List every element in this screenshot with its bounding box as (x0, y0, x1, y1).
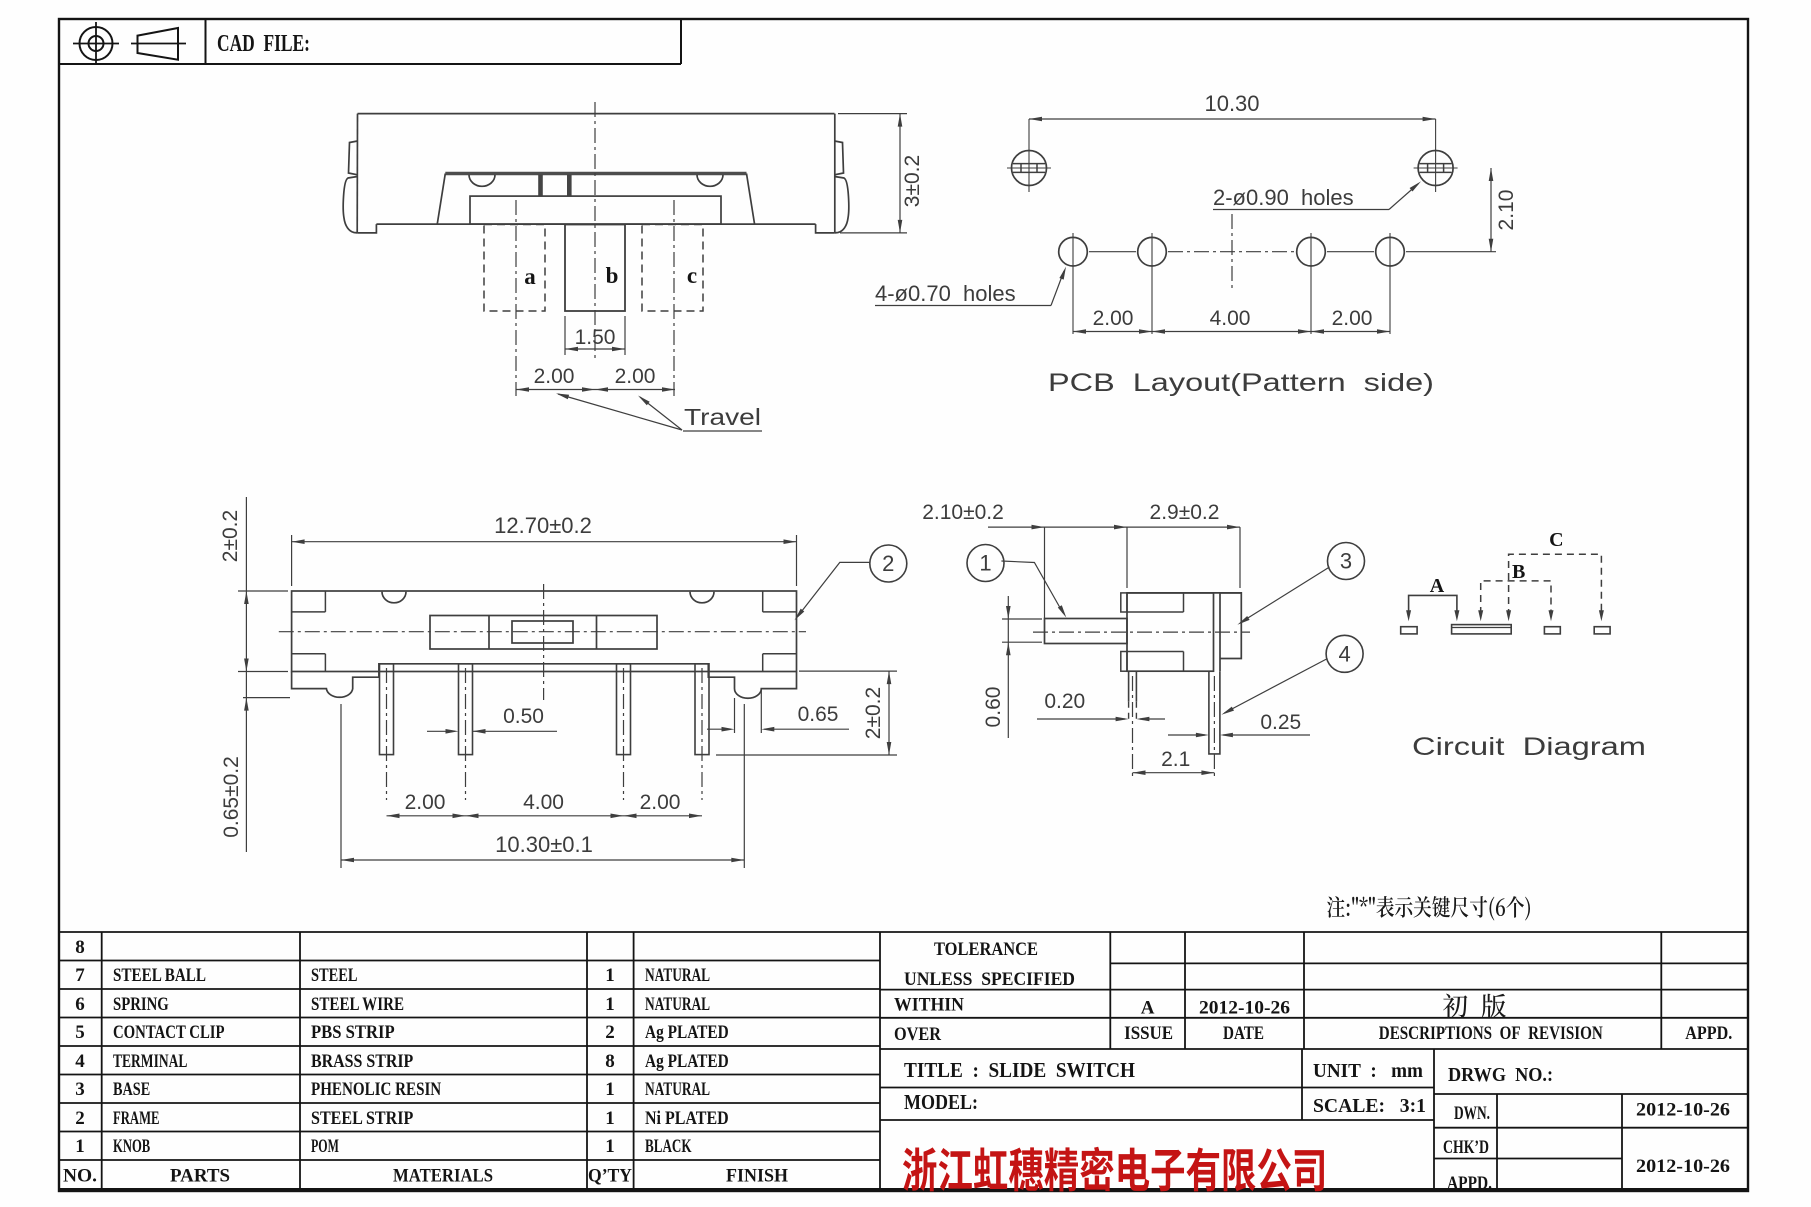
front view stake mark right (567, 175, 572, 197)
top view slot outer (430, 616, 657, 650)
svg-text:OVER: OVER (894, 1025, 942, 1045)
front view frame top plate (445, 172, 746, 176)
top view corner notch BR (763, 653, 797, 655)
drwg block lines (1434, 1093, 1748, 1095)
svg-text:0.65: 0.65 (798, 703, 839, 726)
side view frame right extension (1220, 593, 1241, 659)
circuit pad 4 (1594, 627, 1610, 634)
top view vertical center line (543, 584, 545, 700)
front view a center line (515, 200, 517, 396)
front view left clip tab (349, 141, 358, 175)
svg-text:7: 7 (75, 965, 85, 986)
svg-text:b: b (606, 263, 619, 288)
svg-text:PCB Layout(Pattern side): PCB Layout(Pattern side) (1048, 369, 1434, 397)
top view dome left (382, 592, 406, 603)
dimension 10.30±0.1 extension lines (340, 704, 342, 868)
dimension 2.00 2.00 line (516, 389, 675, 391)
svg-text:2.00: 2.00 (1332, 307, 1373, 330)
title model block lines (880, 1087, 1434, 1089)
revision description chuban (chinese) (1443, 994, 1506, 1018)
svg-text:3: 3 (1340, 549, 1352, 574)
svg-text:CONTACT CLIP: CONTACT CLIP (113, 1023, 225, 1043)
callout 3 balloon (1328, 543, 1365, 580)
svg-text:2012-10-26: 2012-10-26 (1199, 998, 1290, 1019)
svg-text:2.00: 2.00 (1093, 307, 1134, 330)
svg-text:STEEL BALL: STEEL BALL (113, 966, 206, 986)
svg-text:A: A (1141, 998, 1155, 1019)
svg-text:POM: POM (311, 1137, 339, 1157)
front view right foot (816, 224, 835, 233)
front view right edge (834, 114, 836, 233)
side view left tab bottom (1121, 652, 1127, 672)
svg-text:0.20: 0.20 (1044, 690, 1085, 713)
svg-text:10.30±0.1: 10.30±0.1 (495, 832, 593, 857)
svg-text:ISSUE: ISSUE (1124, 1024, 1173, 1044)
note critical dimensions (chinese) (1327, 896, 1530, 921)
svg-text:Ni PLATED: Ni PLATED (645, 1109, 729, 1129)
circuit pad 3 (1544, 627, 1560, 634)
svg-text:0.60: 0.60 (982, 687, 1005, 728)
svg-text:2.00: 2.00 (615, 365, 656, 388)
front view bottom edge (376, 223, 815, 225)
dimension 1.50 (565, 348, 625, 350)
svg-text:NO.: NO. (63, 1166, 97, 1187)
parts table vertical lines (101, 932, 103, 1190)
svg-text:B: B (1512, 561, 1525, 583)
dimension 0.65 right (734, 698, 736, 733)
company name zhejiang hongsui precision electronics (903, 1147, 1324, 1192)
callout 1 balloon (967, 545, 1004, 582)
dimension 2.10±0.2 and 2.9±0.2 (988, 526, 1240, 528)
title bar right end (680, 19, 682, 64)
svg-text:3: 3 (75, 1079, 85, 1100)
svg-text:c: c (687, 263, 697, 288)
top view corner notch TL (292, 611, 326, 613)
top view corner notch BL (292, 653, 326, 655)
svg-text:4: 4 (75, 1051, 85, 1072)
svg-text:2±0.2: 2±0.2 (862, 687, 885, 739)
svg-text:Travel: Travel (684, 404, 761, 430)
svg-text:1: 1 (605, 1108, 615, 1129)
pcb holes horizontal center line (1089, 251, 1136, 253)
title bar bottom line (59, 63, 681, 65)
svg-text:FINISH: FINISH (726, 1166, 788, 1187)
terminal pin 2 (459, 664, 473, 755)
svg-text:BLACK: BLACK (645, 1137, 692, 1157)
svg-text:SPRING: SPRING (113, 995, 169, 1015)
svg-text:2: 2 (605, 1022, 615, 1043)
circuit common pad (1452, 625, 1512, 634)
front view frame right slant (747, 174, 755, 224)
top view knob rect (512, 621, 573, 643)
svg-text:Q’TY: Q’TY (588, 1166, 632, 1187)
front view right lower hook (835, 177, 849, 233)
front view right clip tab (835, 141, 844, 175)
terminal pin 3 (617, 664, 631, 755)
svg-text:Ag PLATED: Ag PLATED (645, 1052, 729, 1072)
callout 4 balloon (1326, 635, 1363, 672)
svg-text:2.10±0.2: 2.10±0.2 (922, 501, 1004, 524)
top view horizontal center line (279, 631, 806, 633)
svg-text:2.00: 2.00 (405, 791, 446, 814)
dimension 3±0.2 (899, 114, 901, 233)
svg-text:12.70±0.2: 12.70±0.2 (494, 513, 592, 538)
side view knob (1045, 619, 1128, 644)
svg-text:WITHIN: WITHIN (894, 996, 965, 1016)
svg-text:3±0.2: 3±0.2 (901, 155, 924, 207)
top view dimension 2.00 4.00 2.00 (387, 815, 703, 817)
title bar divider (205, 19, 207, 64)
front view right dome cutout (697, 175, 723, 187)
svg-text:2.10: 2.10 (1495, 190, 1518, 231)
net B bracket (1481, 581, 1551, 614)
svg-text:2012-10-26: 2012-10-26 (1636, 1156, 1730, 1177)
svg-text:2.9±0.2: 2.9±0.2 (1150, 501, 1220, 524)
svg-text:4.00: 4.00 (523, 791, 564, 814)
callout 2 balloon (870, 545, 907, 582)
svg-text:2.00: 2.00 (534, 365, 575, 388)
svg-text:SCALE: 3:1: SCALE: 3:1 (1313, 1096, 1426, 1117)
svg-text:UNIT : mm: UNIT : mm (1313, 1061, 1423, 1082)
dimension 3±0.2 extension lines (838, 113, 907, 115)
svg-text:1: 1 (605, 1079, 615, 1100)
front view left dome cutout (469, 175, 495, 187)
projection symbol cone (131, 43, 186, 45)
svg-text:PHENOLIC RESIN: PHENOLIC RESIN (311, 1080, 442, 1100)
pcb small hole 2 (1138, 237, 1167, 266)
dimension 0.50 (427, 730, 455, 732)
svg-text:2012-10-26: 2012-10-26 (1636, 1100, 1730, 1121)
pcb small hole 3 (1297, 237, 1326, 266)
svg-text:BRASS STRIP: BRASS STRIP (311, 1052, 413, 1072)
svg-text:APPD.: APPD. (1685, 1024, 1732, 1044)
front view left lower hook (343, 177, 357, 233)
svg-text:a: a (524, 264, 536, 289)
svg-text:2.00: 2.00 (640, 791, 681, 814)
svg-text:TITLE : SLIDE SWITCH: TITLE : SLIDE SWITCH (904, 1058, 1135, 1082)
svg-text:1: 1 (979, 551, 991, 576)
front view left edge (356, 114, 358, 233)
svg-text:8: 8 (605, 1051, 615, 1072)
svg-text:1: 1 (605, 1136, 615, 1157)
front view stake mark left (538, 175, 543, 197)
svg-text:5: 5 (75, 1022, 85, 1043)
svg-text:KNOB: KNOB (113, 1137, 150, 1157)
dimension 2±0.2 right (799, 670, 897, 672)
pcb big hole right (1418, 151, 1453, 186)
svg-text:2-ø0.90 holes: 2-ø0.90 holes (1213, 185, 1354, 210)
dimension 10.30±0.1 (341, 859, 744, 861)
svg-text:2±0.2: 2±0.2 (219, 510, 242, 562)
svg-text:CAD FILE:: CAD FILE: (217, 31, 310, 57)
front view frame left slant (437, 174, 445, 224)
svg-text:FRAME: FRAME (113, 1109, 160, 1129)
dimension 1.50 extension lines (564, 316, 566, 355)
svg-text:C: C (1549, 529, 1563, 551)
dimension 10.30 (1029, 118, 1436, 120)
front view outer shell top edge (358, 113, 835, 115)
svg-text:1: 1 (605, 965, 615, 986)
revision block lines (1110, 962, 1748, 964)
svg-text:MODEL:: MODEL: (904, 1090, 978, 1114)
side view right pin (1209, 671, 1220, 754)
terminal pin 1 (380, 664, 394, 755)
svg-text:6: 6 (75, 994, 85, 1015)
svg-text:UNLESS SPECIFIED: UNLESS SPECIFIED (904, 970, 1075, 990)
dimension 0.20 (1037, 718, 1125, 720)
svg-text:PBS STRIP: PBS STRIP (311, 1023, 395, 1043)
pcb small hole 1 (1059, 237, 1088, 266)
top view slot dividers (488, 616, 490, 650)
svg-text:DRWG NO.:: DRWG NO.: (1448, 1065, 1553, 1086)
svg-text:A: A (1430, 575, 1445, 597)
svg-text:1: 1 (605, 994, 615, 1015)
svg-text:DESCRIPTIONS OF REVISION: DESCRIPTIONS OF REVISION (1379, 1024, 1604, 1044)
side view notch bottom-left (1127, 651, 1184, 653)
svg-text:NATURAL: NATURAL (645, 966, 710, 986)
svg-text:1: 1 (75, 1136, 85, 1157)
travel leader arrows (558, 394, 682, 430)
svg-text:2.1: 2.1 (1161, 748, 1190, 771)
dimension 2.10 (1490, 168, 1492, 252)
svg-text:0.50: 0.50 (503, 705, 544, 728)
svg-text:0.65±0.2: 0.65±0.2 (220, 756, 243, 838)
svg-text:STEEL: STEEL (311, 966, 358, 986)
side view notch top-left (1127, 611, 1184, 613)
net C bracket (1509, 554, 1602, 616)
svg-text:NATURAL: NATURAL (645, 995, 710, 1015)
svg-text:4: 4 (1338, 641, 1350, 666)
pcb dimension 2.00 4.00 2.00 (1073, 331, 1390, 333)
pcb big hole left (1012, 151, 1047, 186)
front view knob position b (565, 225, 625, 312)
svg-text:BASE: BASE (113, 1080, 150, 1100)
parts table horizontal lines (60, 960, 881, 962)
top view bottom profile (292, 664, 797, 698)
svg-text:4.00: 4.00 (1210, 307, 1251, 330)
terminal pin 4 (695, 664, 709, 755)
front view knob position c dashed (642, 225, 703, 312)
side view base (1127, 593, 1214, 671)
projection symbol circle (80, 27, 113, 60)
front view left foot (357, 224, 376, 233)
svg-text:4-ø0.70 holes: 4-ø0.70 holes (875, 281, 1016, 306)
front view center line (594, 102, 596, 358)
top view corner notch TR (763, 611, 797, 613)
front view knob position a dashed (484, 225, 545, 312)
svg-text:STEEL WIRE: STEEL WIRE (311, 995, 404, 1015)
svg-text:APPD.: APPD. (1447, 1173, 1492, 1194)
dimension 12.70±0.2 (292, 541, 797, 543)
circuit pad 1 (1401, 627, 1417, 634)
sheet bottom thick border (59, 1188, 1748, 1192)
top view body (292, 591, 797, 672)
top view dome right (690, 592, 714, 603)
svg-text:10.30: 10.30 (1204, 91, 1259, 116)
front view base plate (470, 196, 721, 224)
front view c center line (673, 200, 675, 396)
dimension 0.25 (1168, 734, 1205, 736)
svg-text:TOLERANCE: TOLERANCE (934, 940, 1038, 960)
svg-text:NATURAL: NATURAL (645, 1080, 710, 1100)
side view left pin (1128, 671, 1130, 702)
dimension 2.1 (1133, 772, 1215, 774)
pcb small hole 4 (1376, 237, 1405, 266)
svg-text:0.25: 0.25 (1260, 711, 1301, 734)
dimension 0.60 (1002, 618, 1042, 620)
svg-text:DATE: DATE (1223, 1024, 1264, 1044)
svg-text:8: 8 (75, 937, 85, 958)
svg-text:PARTS: PARTS (170, 1166, 230, 1187)
svg-text:2: 2 (75, 1108, 85, 1129)
svg-text:1.50: 1.50 (575, 326, 616, 349)
svg-text:STEEL STRIP: STEEL STRIP (311, 1109, 413, 1129)
dimension 2±0.2 left (238, 590, 288, 592)
svg-text:2: 2 (882, 551, 894, 576)
dimension 0.65±0.2 left (243, 697, 290, 699)
svg-text:Circuit Diagram: Circuit Diagram (1412, 733, 1646, 761)
side view center line (1033, 631, 1250, 633)
pcb center vertical line (1231, 214, 1233, 290)
svg-text:Ag PLATED: Ag PLATED (645, 1023, 729, 1043)
net A bracket (1409, 595, 1457, 612)
svg-text:TERMINAL: TERMINAL (113, 1052, 187, 1072)
dimension 12.70±0.2 extension lines (291, 535, 293, 586)
svg-text:DWN.: DWN. (1454, 1103, 1490, 1124)
svg-text:MATERIALS: MATERIALS (393, 1166, 493, 1187)
svg-text:CHK’D: CHK’D (1443, 1137, 1489, 1158)
side view left tab top (1121, 593, 1127, 612)
